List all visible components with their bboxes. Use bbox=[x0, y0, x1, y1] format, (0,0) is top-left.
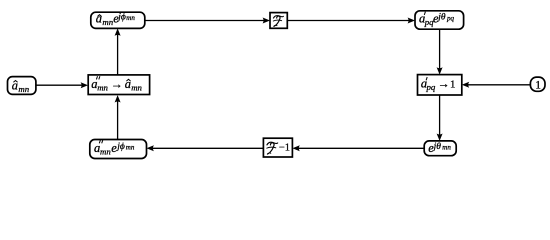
box B2 inverse Fourier transform bbox=[263, 138, 292, 157]
box T2 Fourier transform bbox=[270, 13, 287, 29]
svg-text:1: 1 bbox=[450, 79, 456, 91]
svg-text:mn: mn bbox=[442, 144, 451, 152]
svg-text:pq: pq bbox=[426, 82, 436, 92]
svg-text:1: 1 bbox=[535, 80, 541, 92]
wire M2 up to T1 bbox=[115, 28, 121, 75]
svg-text:jθ: jθ bbox=[432, 142, 442, 152]
wire M1 to M2 bbox=[36, 82, 88, 88]
box M2 amplitude replacement bbox=[88, 75, 149, 95]
wire B3 to B2 bbox=[292, 145, 424, 151]
node constant 1 bbox=[530, 77, 545, 92]
wire T3 down to M3 bbox=[437, 29, 443, 74]
wire T2 to T3 bbox=[287, 18, 415, 24]
svg-text:mn: mn bbox=[131, 83, 142, 93]
wire node-1 to M3 bbox=[462, 82, 531, 88]
svg-text:mn: mn bbox=[126, 144, 135, 152]
wire B2 to B1 bbox=[147, 145, 264, 151]
svg-text:jϕ: jϕ bbox=[115, 142, 125, 152]
script F glyph bbox=[267, 142, 278, 154]
box T1 a_mn e^(j phi_mn) bbox=[91, 11, 145, 28]
box T3 a'_pq e^(j theta_pq) bbox=[415, 11, 464, 29]
box B1 a''_mn e^(j phi_mn) bbox=[90, 140, 147, 159]
svg-text:jϕ: jϕ bbox=[116, 12, 126, 22]
svg-text:mn: mn bbox=[102, 17, 113, 27]
wire T1 to T2 bbox=[145, 18, 270, 24]
box B3 phase keep e^(j theta_mn) bbox=[424, 141, 456, 156]
box M1 input a_mn bbox=[8, 77, 36, 95]
box M3 amplitude limiter bbox=[418, 75, 462, 95]
wire M3 down to B3 bbox=[437, 95, 443, 141]
wire B1 up to M2 bbox=[115, 95, 121, 139]
svg-text:a: a bbox=[96, 11, 102, 25]
script F glyph bbox=[273, 16, 283, 27]
svg-text:→: → bbox=[111, 77, 123, 91]
svg-text:−1: −1 bbox=[279, 142, 290, 153]
svg-text:mn: mn bbox=[100, 146, 111, 156]
svg-text:mn: mn bbox=[18, 84, 29, 94]
svg-text:jθ: jθ bbox=[436, 13, 446, 23]
svg-text:mn: mn bbox=[126, 14, 135, 22]
svg-text:→: → bbox=[438, 76, 450, 90]
svg-text:pq: pq bbox=[446, 14, 455, 22]
svg-text:mn: mn bbox=[97, 83, 108, 93]
